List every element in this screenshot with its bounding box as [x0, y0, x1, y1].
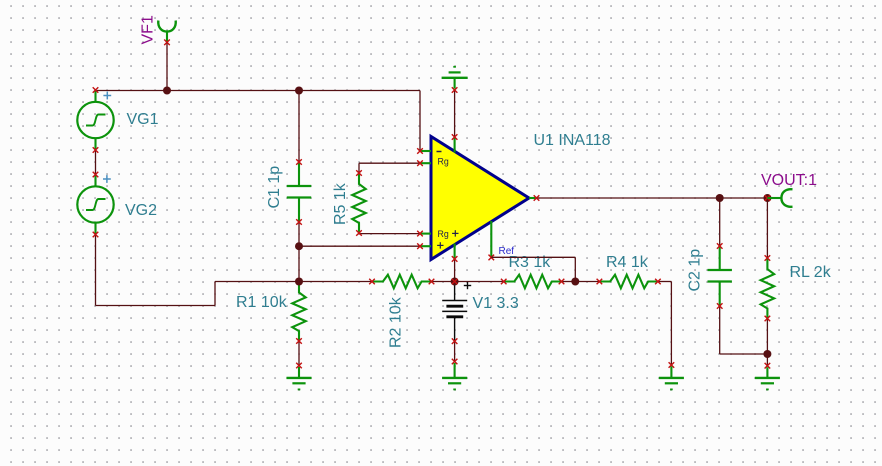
wire RL to node F: [766, 319, 768, 355]
wire R2 to node D: [432, 281, 504, 283]
label R4 1k: [606, 254, 649, 271]
op-amp pin label plus low: [437, 242, 443, 248]
wire R1 to ground: [298, 341, 300, 366]
svg-text:C1 1p: C1 1p: [266, 166, 283, 209]
wire VG2 loop bottom: [96, 305, 216, 307]
junction node F (C2/RL bottom): [763, 350, 771, 358]
resistor RL: [761, 255, 775, 321]
op-amp pin label Rg bottom: [438, 229, 449, 239]
wire rail to C1 top: [298, 91, 300, 163]
wire R5 bottom to Rg2 pin: [359, 233, 420, 235]
wire node C to R2: [299, 281, 372, 283]
junction output/C2: [716, 194, 724, 202]
wire output to RL: [766, 198, 768, 258]
op-amp U1 pin V+ top: [452, 134, 458, 152]
label VG2: [125, 202, 157, 219]
svg-text:VOUT:1: VOUT:1: [761, 172, 817, 189]
wire R4 right: [658, 281, 672, 283]
V1 plus sign: [464, 282, 471, 289]
wire node B to opamp + pin: [299, 245, 420, 247]
ground below R1: [287, 363, 312, 390]
junction VF1/rail: [163, 87, 171, 95]
power ground (V+ rail): [442, 67, 468, 93]
junction node D (V-): [451, 278, 459, 286]
resistor R4: [597, 275, 661, 289]
wire Ref down to node E: [574, 257, 576, 281]
label C2 1p: [687, 249, 704, 292]
wire VG2- down: [95, 235, 97, 306]
wire node F to ground: [766, 354, 768, 366]
svg-text:R1 10k: R1 10k: [236, 294, 288, 311]
wire V+ ground to opamp top: [454, 90, 456, 137]
op-amp U1 pin Ref: [489, 221, 495, 260]
voltage probe VOUT: [767, 189, 792, 207]
wire R3 to node E: [562, 281, 576, 283]
ground below RL: [755, 363, 780, 390]
wire Ref right overlay: [491, 256, 575, 258]
capacitor C1: [287, 159, 311, 225]
label R5 1k: [332, 182, 349, 225]
op-amp pin label plus mid: [452, 230, 458, 236]
svg-text:VG2: VG2: [125, 202, 157, 219]
svg-text:U1 INA118: U1 INA118: [534, 132, 611, 149]
wire node E to R4: [575, 281, 599, 283]
svg-text:V1 3.3: V1 3.3: [473, 295, 519, 312]
wire opamp V- to node D: [454, 259, 456, 282]
svg-text:R4 1k: R4 1k: [606, 254, 649, 271]
junction node E (R3/R4): [571, 278, 579, 286]
op-amp U1 pin Rg top: [417, 160, 431, 166]
resistor R3: [501, 275, 564, 289]
svg-text:R2 10k: R2 10k: [388, 296, 405, 348]
op-amp U1 pin + (non-inverting): [417, 243, 431, 249]
svg-text:RL 2k: RL 2k: [790, 264, 832, 281]
ground below R4: [659, 362, 684, 389]
resistor R2: [369, 275, 434, 289]
source VG2: [77, 172, 113, 238]
voltage probe VF1: [158, 21, 176, 46]
wire C2 bottom across: [720, 353, 768, 355]
wire R5 top up: [358, 163, 360, 173]
svg-text:C2 1p: C2 1p: [687, 249, 704, 292]
svg-text:VG1: VG1: [127, 111, 159, 128]
junction C1/rail: [295, 87, 303, 95]
wire output to C2: [719, 198, 721, 246]
svg-text:R3 1k: R3 1k: [509, 254, 552, 271]
label R3 1k: [509, 254, 552, 271]
source VG1: [77, 87, 113, 153]
battery V1: [442, 282, 467, 345]
op-amp pin label minus: [437, 151, 442, 153]
junction node C: [295, 278, 303, 286]
wire VG1- to VG2+: [95, 151, 97, 175]
resistor R5: [352, 170, 366, 236]
wire R4 corner down to ground: [670, 282, 672, 366]
op-amp U1 pin V- bottom: [452, 244, 458, 262]
wire node B down to node C: [298, 246, 300, 281]
wire C2 down: [719, 306, 721, 354]
svg-text:VF1: VF1: [140, 15, 157, 44]
wire top rail VG1+ to corner: [96, 90, 421, 92]
op-amp U1 pin - (inverting): [417, 148, 431, 154]
op-amp U1 output pin: [529, 195, 539, 201]
label R2 10k: [388, 296, 405, 348]
resistor R1: [292, 279, 306, 344]
capacitor C2: [708, 243, 732, 309]
label C1 1p: [266, 166, 283, 209]
wire opamp output: [537, 197, 768, 199]
op-amp pin label Rg top: [438, 156, 449, 166]
op-amp pin label Ref: [499, 246, 515, 257]
label U1 INA118: [534, 132, 611, 149]
op-amp U1 INA118: [431, 137, 529, 260]
svg-text:R5 1k: R5 1k: [332, 182, 349, 225]
VG1 plus sign: [103, 92, 111, 100]
junction node B: [295, 242, 303, 250]
ground below V1: [442, 359, 467, 390]
label VOUT:1: [761, 172, 817, 189]
label VG1: [127, 111, 159, 128]
label V1 3.3: [473, 295, 519, 312]
svg-text:Rg: Rg: [438, 156, 449, 166]
VG2 plus sign: [103, 175, 111, 183]
wire C1 bottom to node B: [298, 222, 300, 246]
junction output/RL: [763, 194, 771, 202]
label VF1: [140, 15, 157, 44]
wire V1 to ground: [454, 341, 456, 361]
label RL 2k: [790, 264, 832, 281]
wire VG2 loop up: [214, 282, 216, 306]
op-amp U1 pin Rg bottom: [417, 231, 431, 237]
wire VF1 probe drop: [166, 43, 168, 91]
wire Ref right: [491, 256, 575, 258]
wire VG2 loop to node C: [215, 281, 299, 283]
label R1 10k: [236, 294, 288, 311]
wire corner down to opamp - pin: [419, 91, 421, 152]
svg-text:Rg: Rg: [438, 229, 449, 239]
wire R5 top to Rg1 pin: [359, 162, 420, 164]
